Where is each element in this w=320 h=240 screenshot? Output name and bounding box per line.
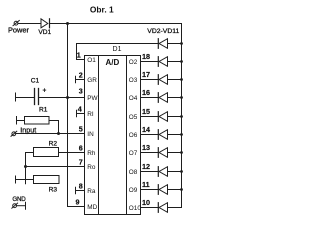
svg-text:O4: O4 <box>129 95 138 102</box>
LED VD4 output O3 <box>159 75 167 85</box>
svg-text:O8: O8 <box>129 169 138 176</box>
svg-text:Rh: Rh <box>87 150 96 157</box>
wire pin 1 O1 route over IC top <box>77 44 159 60</box>
wire GND stub <box>17 205 26 207</box>
wire pin 10 to LED VD11 <box>141 207 159 209</box>
node rail junction row 17 <box>180 78 183 81</box>
svg-text:Obr. 1: Obr. 1 <box>90 5 114 15</box>
svg-text:GR: GR <box>87 77 97 84</box>
terminal Power <box>14 21 18 25</box>
svg-text:Ro: Ro <box>87 164 96 171</box>
svg-text:10: 10 <box>142 198 150 207</box>
node rail junction row 11 <box>180 188 183 191</box>
IC D1 A/D box <box>85 56 141 215</box>
svg-text:17: 17 <box>142 70 150 79</box>
pin 3 PW <box>68 97 85 99</box>
LED VD9 output O8 <box>159 167 167 177</box>
wire pin 15 to LED VD6 <box>141 116 159 118</box>
svg-text:R2: R2 <box>49 141 58 148</box>
node rail junction row 13 <box>180 151 183 154</box>
svg-text:O2: O2 <box>129 59 138 66</box>
wire R1 right lead down to input node <box>49 121 59 134</box>
svg-text:VD1: VD1 <box>38 29 51 36</box>
svg-text:O7: O7 <box>129 150 138 157</box>
svg-text:12: 12 <box>142 162 150 171</box>
svg-text:5: 5 <box>79 125 83 134</box>
wire right LED anode rail <box>168 24 182 208</box>
svg-text:3: 3 <box>79 87 83 96</box>
svg-text:Ra: Ra <box>87 188 96 195</box>
node input junction <box>57 132 60 135</box>
node junction of V+ rail <box>66 22 69 25</box>
node rail junction row 16 <box>180 96 183 99</box>
wire input to pin 5 IN <box>16 133 85 135</box>
LED VD11 output O10 <box>159 203 167 213</box>
svg-text:14: 14 <box>142 125 150 134</box>
node rail junction row 15 <box>180 115 183 118</box>
svg-text:O9: O9 <box>129 187 138 194</box>
svg-text:IN: IN <box>87 131 94 138</box>
svg-text:+: + <box>42 88 46 95</box>
svg-text:1: 1 <box>77 51 81 60</box>
svg-text:8: 8 <box>79 182 83 191</box>
wire Ro node to pin 7 Ro <box>26 166 85 168</box>
wire C1 left lead <box>16 97 35 99</box>
LED VD2 on O1 route <box>159 39 167 49</box>
LED VD8 output O7 <box>159 148 167 158</box>
svg-text:18: 18 <box>142 52 150 61</box>
LED VD6 output O5 <box>159 112 167 122</box>
resistor R3 <box>34 176 60 184</box>
wire R2 left lead down to Ro node <box>26 153 34 184</box>
svg-text:2: 2 <box>79 71 83 80</box>
diode VD1 <box>41 19 48 28</box>
svg-text:O10: O10 <box>129 205 142 212</box>
svg-text:7: 7 <box>79 158 83 167</box>
wire R2 right lead to pin 6 Rh <box>59 152 85 154</box>
pin 2 GR <box>75 76 77 83</box>
svg-text:O6: O6 <box>129 132 138 139</box>
svg-text:D1: D1 <box>113 46 122 53</box>
node rail junction row 18 <box>180 60 183 63</box>
svg-text:R1: R1 <box>39 106 48 113</box>
wire pin 16 to LED VD5 <box>141 97 159 99</box>
svg-text:6: 6 <box>79 144 83 153</box>
wire pin 17 to LED VD4 <box>141 79 159 81</box>
LED VD10 output O9 <box>159 185 167 195</box>
wire left V+ rail down to pin 9 MD <box>68 24 85 207</box>
svg-text:11: 11 <box>142 180 150 189</box>
svg-text:15: 15 <box>142 107 150 116</box>
svg-text:R3: R3 <box>49 187 58 194</box>
svg-text:RI: RI <box>87 111 94 118</box>
wire pin 14 to LED VD7 <box>141 134 159 136</box>
wire R1 left lead <box>17 120 25 122</box>
svg-text:9: 9 <box>76 198 80 207</box>
wire VD1 to right rail corner <box>50 23 182 25</box>
svg-text:O5: O5 <box>129 114 138 121</box>
svg-text:Power: Power <box>8 26 29 35</box>
svg-text:VD2-VD11: VD2-VD11 <box>147 28 179 35</box>
wire pin 13 to LED VD8 <box>141 152 159 154</box>
wire pin 11 to LED VD10 <box>141 189 159 191</box>
pin 4 RI <box>76 110 78 117</box>
node rail junction VD2 <box>180 42 183 45</box>
wire R3 left lead <box>16 179 34 181</box>
node rail junction row 14 <box>180 133 183 136</box>
LED VD7 output O6 <box>159 130 167 140</box>
wire pin 18 to LED VD3 <box>141 61 159 63</box>
pin 8 Ra <box>75 187 77 194</box>
svg-text:A/D: A/D <box>106 58 120 67</box>
LED VD5 output O4 <box>159 93 167 103</box>
svg-text:O3: O3 <box>129 77 138 84</box>
svg-text:MD: MD <box>87 204 97 211</box>
node junction at PW row <box>66 96 69 99</box>
wire power to VD1 <box>18 23 41 25</box>
svg-text:16: 16 <box>142 88 150 97</box>
terminal Input <box>12 132 16 136</box>
svg-text:PW: PW <box>87 95 98 102</box>
svg-text:4: 4 <box>78 105 82 114</box>
wire pin 12 to LED VD9 <box>141 171 159 173</box>
svg-text:GND: GND <box>12 196 26 203</box>
wire C1 right lead <box>39 97 68 99</box>
node rail junction row 12 <box>180 170 183 173</box>
svg-text:O1: O1 <box>87 57 96 64</box>
LED VD3 output O2 <box>159 57 167 67</box>
svg-text:13: 13 <box>142 143 150 152</box>
node Ro junction <box>24 165 27 168</box>
svg-text:C1: C1 <box>31 77 40 84</box>
